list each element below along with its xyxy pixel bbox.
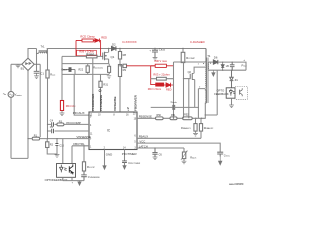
svg-text:R8: R8 — [123, 53, 127, 57]
wire gate net vertical — [188, 79, 190, 119]
svg-text:+: + — [243, 58, 245, 62]
svg-text:Rlatch: Rlatch — [190, 157, 196, 160]
phase dot primary — [203, 63, 204, 64]
svg-text:RFBAUX2: RFBAUX2 — [204, 127, 214, 130]
red clamp 2 flyback — [151, 64, 174, 87]
wire AC left vertical — [10, 64, 12, 158]
wire red tap line — [127, 65, 156, 67]
wire Raux column — [47, 49, 49, 70]
wire B+ riser — [36, 49, 38, 72]
node PFCSENSE top circle — [99, 90, 101, 92]
resistor divider R4 — [119, 49, 121, 52]
ground RNTC — [182, 161, 187, 164]
svg-text:CVINSENSE: CVINSENSE — [88, 176, 101, 179]
capacitor C6 — [152, 148, 157, 157]
wire rail into primary — [205, 49, 207, 62]
diode LB indicator — [221, 62, 224, 70]
zener Z1 — [230, 70, 234, 88]
svg-text:Z1: Z1 — [235, 78, 239, 82]
resistor R1 — [32, 137, 39, 140]
svg-text:1: 1 — [198, 64, 200, 66]
svg-text:C5: C5 — [50, 126, 54, 129]
svg-text:R(sense1): R(sense1) — [93, 66, 103, 69]
wire red stub right — [100, 40, 102, 56]
svg-text:10: 10 — [134, 118, 137, 120]
node C10 top — [56, 138, 57, 139]
svg-text:LATCH: LATCH — [139, 144, 148, 148]
svg-text:Raux: Raux — [50, 73, 55, 77]
svg-text:R03 1.5mm: R03 1.5mm — [148, 87, 161, 91]
wire R22 stubs — [87, 64, 89, 75]
wire PFCAUX — [74, 74, 89, 115]
svg-text:800 V max: 800 V max — [155, 59, 168, 63]
svg-text:B1: B1 — [21, 67, 25, 71]
svg-text:R22: R22 — [79, 69, 84, 72]
wire C5 branch — [48, 130, 90, 132]
capacitor C4 — [52, 122, 54, 126]
svg-text:FEEDBACK: FEEDBACK — [214, 92, 229, 96]
ground arrow opto1 — [78, 181, 81, 186]
wire aux bottom — [204, 103, 206, 119]
wire FBCTRL — [72, 145, 89, 147]
wire clamp2 right vertical — [173, 62, 175, 118]
inductor Tr1 — [37, 50, 48, 53]
node Q1 drain — [108, 48, 109, 49]
svg-text:D2: D2 — [112, 42, 116, 46]
IC box — [89, 112, 137, 150]
svg-text:CPFCTIMER: CPFCTIMER — [128, 162, 141, 165]
bridge rectifier B1 — [22, 58, 34, 70]
wire sense bottom rail — [62, 73, 109, 75]
wire Raux down — [47, 78, 49, 139]
wire secondary bottom — [209, 69, 246, 71]
svg-text:aaa-008089: aaa-008089 — [229, 182, 244, 186]
winding T1 secondary — [207, 62, 210, 70]
svg-text:R2: R2 — [50, 144, 54, 147]
LED inside opto1 — [59, 165, 66, 173]
resistor R2 — [46, 139, 48, 142]
svg-text:5: 5 — [134, 141, 136, 143]
ground arrow secondary — [212, 70, 215, 76]
svg-text:4: 4 — [90, 125, 92, 127]
node switch rail junction — [47, 48, 48, 49]
svg-text:Csnub: Csnub — [171, 101, 178, 104]
svg-text:10: 10 — [98, 114, 101, 116]
svg-text:+: + — [149, 49, 151, 52]
wire FBAUX — [137, 137, 201, 139]
svg-text:VCC: VCC — [139, 139, 145, 143]
wire RNTC down — [183, 159, 185, 162]
svg-text:7: 7 — [90, 139, 92, 141]
red annotation box around Rgate — [77, 50, 97, 55]
node primary descender joint — [198, 107, 199, 108]
capacitor C10 — [56, 139, 58, 154]
svg-text:FBAUX: FBAUX — [139, 134, 148, 138]
wire FBSENSE row — [137, 117, 206, 119]
svg-text:VOSENSE: VOSENSE — [113, 96, 117, 111]
opto feedback secondary box — [226, 88, 235, 98]
wire opto2 bottom to ground — [231, 98, 233, 105]
svg-text:RCD Clamp: RCD Clamp — [80, 34, 95, 38]
wire aux link — [205, 70, 217, 115]
ground arrow CVCC — [218, 157, 222, 166]
svg-text:Tr1: Tr1 — [41, 45, 46, 49]
svg-text:16: 16 — [126, 114, 129, 116]
resistor Rfb2 — [200, 118, 202, 123]
svg-text:R9: R9 — [123, 68, 127, 72]
resistor R31 — [100, 74, 102, 81]
wire to PFCSENSE pin — [100, 87, 102, 112]
svg-text:C6: C6 — [159, 154, 163, 157]
resistor divider R5 — [118, 65, 121, 77]
resistor R22 — [86, 66, 89, 73]
resistor Raux — [46, 70, 49, 78]
component tap block — [123, 64, 127, 67]
winding T1 aux — [204, 89, 207, 104]
svg-text:Q1: Q1 — [111, 55, 115, 59]
svg-text:PFCSENSE: PFCSENSE — [99, 95, 103, 111]
ground at bridge AC input — [16, 64, 21, 68]
phototransistor inside dashed — [240, 88, 243, 96]
svg-text:R50: R50 — [157, 114, 162, 117]
node B+ — [36, 64, 37, 65]
resistor RCOMP — [182, 49, 184, 53]
svg-text:GND: GND — [106, 152, 112, 156]
svg-text:RFBAUX1: RFBAUX1 — [181, 127, 191, 130]
capacitor CVINSENSE — [81, 171, 87, 181]
diode red clamp D — [95, 39, 100, 43]
winding T1 primary — [204, 62, 207, 87]
diode D6 — [213, 60, 217, 64]
ground below opto2 — [229, 105, 234, 108]
wire red stub left — [75, 40, 77, 56]
ground arrow PFCTIMER — [123, 166, 126, 170]
transistor Q1 PFC MOSFET — [103, 52, 109, 60]
svg-text:R31: R31 — [103, 84, 108, 87]
resistor Rsense PFC — [108, 66, 111, 72]
wire rail B gate line — [62, 55, 103, 57]
svg-text:RED: RED — [101, 36, 107, 40]
svg-text:RLOOP: RLOOP — [87, 165, 95, 169]
opto feedback primary box — [57, 164, 76, 178]
svg-text:RCOMP: RCOMP — [186, 56, 195, 60]
svg-text:PFCDRIVER: PFCDRIVER — [91, 93, 95, 111]
capacitor C1 — [34, 71, 40, 73]
ground below red resistor — [60, 111, 65, 116]
svg-text:Vmains: Vmains — [15, 93, 22, 97]
svg-text:CVCC: CVCC — [224, 153, 231, 157]
svg-text:+V: +V — [126, 107, 130, 111]
wire bridge output up to rail — [28, 49, 37, 59]
svg-text:9: 9 — [90, 116, 92, 118]
wire red branch — [76, 39, 101, 41]
ground below Rsense rail — [107, 76, 111, 79]
resistor R51 — [170, 117, 177, 120]
svg-text:R51: R51 — [171, 114, 176, 117]
svg-text:R52: R52 — [184, 113, 189, 116]
wire Rfb2 to FBAUX — [200, 131, 202, 138]
ground R2 — [55, 155, 60, 158]
svg-text:D-XXXXXX: D-XXXXXX — [123, 40, 137, 44]
wire rail A boost — [47, 48, 206, 50]
node gate tap — [183, 78, 184, 79]
capacitor CVCC — [217, 152, 223, 156]
svg-text:Caux: Caux — [61, 68, 68, 72]
svg-text:C-DASHED: C-DASHED — [190, 40, 205, 44]
wire clamp2 top to transformer — [174, 61, 207, 63]
wire PFCCOMP branch — [48, 123, 90, 125]
wire PFCTIMER pin down — [124, 150, 126, 161]
wire AC right vertical to bridge — [27, 71, 29, 159]
wire LATCH — [137, 147, 184, 149]
svg-text:FBCTRL: FBCTRL — [73, 142, 85, 146]
svg-text:PFCTIMER: PFCTIMER — [122, 152, 137, 156]
wire AC bottom — [11, 157, 28, 159]
svg-text:+: + — [72, 181, 74, 184]
wire bridge left corner to ground — [11, 63, 22, 65]
svg-text:VINSENSE: VINSENSE — [76, 135, 91, 139]
node row junctions — [173, 118, 174, 119]
wire divider to IC — [119, 77, 121, 113]
resistor Rgate1 — [86, 55, 97, 58]
ground arrow GND pin — [103, 166, 106, 170]
svg-text:1: 1 — [90, 146, 92, 148]
wire clamp2 left vertical — [151, 66, 156, 85]
wire opto1 bottom — [63, 177, 84, 180]
wire RCOMP down — [183, 63, 185, 119]
svg-text:13: 13 — [133, 113, 136, 115]
wire secondary top — [209, 61, 213, 63]
diode D2 boost — [112, 46, 116, 51]
resistor red clamp2 R — [155, 64, 166, 67]
wire Rsense stubs — [108, 64, 110, 75]
wire opto collector riser — [71, 146, 73, 164]
svg-text:PFCCOMP: PFCCOMP — [66, 121, 81, 125]
wire divider tap — [120, 65, 123, 67]
resistor red RPFCAUX — [60, 101, 63, 111]
resistor R50 — [156, 117, 164, 120]
wire LED anode riser — [62, 139, 64, 164]
ground below CBulk — [153, 58, 158, 61]
wire Q1 source — [108, 59, 110, 64]
wire mains sense vertical — [39, 64, 41, 137]
svg-text:RED: RED — [166, 88, 172, 92]
wire Csnub to Q2 source — [151, 80, 199, 108]
wire output top — [218, 62, 246, 70]
wire VCC — [137, 143, 220, 152]
svg-text:R03 + 22ohm: R03 + 22ohm — [153, 73, 170, 77]
resistor Rfb1 — [195, 118, 197, 123]
svg-text:OPTOFEEDBACK: OPTOFEEDBACK — [45, 178, 68, 182]
wire bridge right corner — [34, 63, 40, 65]
phototransistor inside opto1 — [69, 164, 73, 174]
wire Q2 drain — [194, 67, 205, 73]
svg-text:C4: C4 — [50, 120, 54, 123]
resistor red clamp2 fill — [156, 83, 164, 86]
svg-text:C10: C10 — [59, 144, 64, 147]
wire source node line — [62, 63, 109, 65]
svg-text:Q2: Q2 — [188, 71, 192, 74]
wire aux column — [61, 56, 63, 100]
svg-text:D6: D6 — [214, 56, 218, 60]
capacitor Csnub — [173, 105, 175, 110]
wire R2 to ground — [47, 148, 57, 155]
wire Q2 gate — [184, 78, 191, 80]
phase dot secondary — [210, 63, 211, 64]
svg-text:T1: T1 — [207, 54, 211, 58]
svg-text:IC: IC — [107, 128, 111, 132]
wire VINSENSE — [28, 138, 89, 140]
red clamp 1 annotation box — [76, 39, 101, 57]
wire Q1 drain — [108, 49, 110, 53]
wire RLoop riser — [83, 146, 85, 162]
svg-text:6: 6 — [134, 135, 136, 137]
capacitor CBulk — [152, 49, 158, 58]
capacitor C5 — [52, 129, 54, 133]
svg-text:FBDRIVER: FBDRIVER — [133, 94, 137, 111]
transistor Q2 flyback MOSFET — [190, 73, 195, 79]
capacitor CPFCTIMER — [122, 161, 127, 163]
svg-text:C1: C1 — [40, 71, 44, 75]
wire primary bottom — [198, 89, 205, 119]
svg-text:8: 8 — [113, 114, 115, 116]
resistor Rsnub2 — [157, 77, 167, 80]
ground below C1 — [34, 73, 39, 78]
wire clamp2 right join — [166, 65, 173, 67]
wire between divider — [119, 59, 121, 65]
AC source Vmains — [8, 92, 14, 98]
capacitor Cout — [230, 62, 235, 70]
wire Rsnub2 leads — [151, 78, 174, 80]
ground C6 — [153, 157, 158, 160]
wire GND pin down — [104, 150, 106, 166]
resistor R52 — [183, 117, 193, 120]
svg-text:FBSENSE: FBSENSE — [139, 114, 152, 118]
dashed box opto2 — [235, 87, 247, 100]
LED inside opto2 — [229, 89, 235, 96]
transformer T1 — [205, 49, 209, 104]
capacitor Caux — [62, 70, 75, 75]
diode red clamp2 — [151, 83, 174, 87]
ground under Rfb1 — [193, 131, 198, 136]
resistor red clamp R — [82, 39, 93, 42]
core T1 — [207, 58, 209, 104]
svg-text:PFCAUX: PFCAUX — [73, 111, 85, 115]
thermistor RNTC — [183, 148, 185, 152]
resistor RLoop — [82, 162, 85, 171]
svg-text:LB: LB — [226, 65, 229, 68]
resistor R3 — [57, 123, 64, 126]
wire PFCDRV riser — [92, 58, 94, 112]
wire to ground arrow — [124, 163, 126, 166]
